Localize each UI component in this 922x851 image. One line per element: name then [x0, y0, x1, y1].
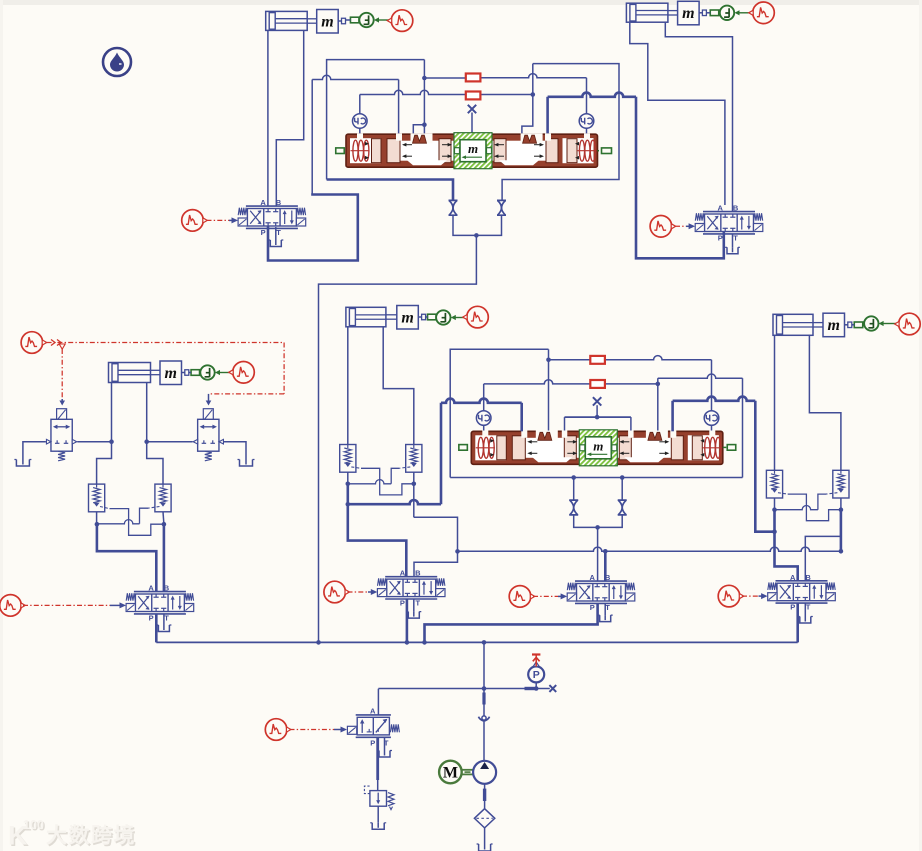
relief valve 1M [340, 445, 356, 473]
wire mid loop top-left [450, 349, 548, 477]
node long line left end [455, 549, 460, 554]
wire relief1R to hub (thick) [773, 510, 776, 532]
tank DCV2 [727, 247, 738, 254]
wire cyl4t cap to DCV2 A [630, 23, 725, 205]
node xgate mid [595, 525, 600, 530]
tank DCV6 [800, 617, 811, 624]
valve block 2 [471, 431, 723, 464]
wire DCV3 T to tank [163, 614, 165, 625]
relief pilot cross L [100, 507, 110, 509]
cylinder 2 [346, 307, 386, 327]
wire DCV2 T to tank [732, 234, 734, 247]
block1 right port square [602, 148, 612, 154]
node orifice1 junction [422, 76, 427, 81]
wire orificeB line [484, 380, 591, 384]
long pressure line (thin) [458, 547, 842, 551]
wire to DCV3 A (thick) [97, 524, 156, 591]
wire DCV3 P to bus (thick) [155, 614, 158, 642]
wire to bottom valve A [377, 689, 379, 715]
pump [473, 761, 496, 784]
mass 3 [160, 361, 182, 385]
svg-text:T: T [416, 598, 421, 607]
node xgate junction [474, 233, 479, 238]
wire VR right to tank [224, 442, 246, 460]
svg-text:m: m [468, 141, 478, 156]
node cyl3 cap [109, 439, 114, 444]
node DCV6 A hub [772, 529, 777, 534]
wire bottom valve P (thick) [376, 737, 379, 780]
svg-text:B: B [733, 204, 739, 213]
pipe segment pump-out (thick) [483, 789, 486, 801]
flow sensor Ch right [579, 114, 594, 129]
wire cyl3 cap down [111, 383, 113, 442]
cylinder 4 top [626, 3, 668, 22]
xgate X1 [449, 200, 458, 215]
flow sensor Ch left [353, 114, 368, 129]
svg-text:B: B [415, 569, 421, 578]
wire chq-left-mid drop [483, 384, 485, 411]
mass 4m [823, 313, 845, 337]
pump bus [156, 641, 797, 643]
green arrow 4m [883, 323, 896, 325]
wire DCV1 P lower (thick) [268, 195, 358, 261]
wire thick feed from block notch-right [671, 401, 674, 432]
svg-text:P: P [590, 603, 595, 612]
signal source DCV2 [650, 216, 676, 238]
svg-text:T: T [733, 233, 738, 242]
wire VL right to node [77, 441, 111, 443]
green link 4t [710, 10, 719, 16]
mass 4t [678, 1, 700, 25]
wire DCV4 T tank [413, 599, 415, 612]
tank VL [16, 460, 29, 467]
node orificeB junction [656, 382, 661, 387]
wire filter to tank [484, 828, 486, 844]
signal source cyl2 [463, 306, 489, 328]
wire relief2R down to long line [840, 510, 843, 552]
svg-text:m: m [828, 317, 840, 334]
wire pump to filter [484, 784, 486, 809]
signal source bottom valve [265, 719, 291, 741]
wire orifice1 line [424, 77, 465, 79]
block2 left port square [459, 445, 468, 451]
tank pump suction [479, 844, 491, 851]
valve VL 2/2 [57, 409, 67, 421]
wire relief2R down [840, 498, 842, 510]
flow sensor Ch mid-left [476, 411, 491, 426]
svg-text:B: B [805, 573, 811, 582]
wire relief1L down [96, 512, 98, 524]
wire relief1R down [774, 498, 776, 510]
force sensor 4m [864, 316, 878, 330]
signal source cyl4m [895, 313, 921, 335]
green link 4m [854, 322, 863, 328]
svg-text:T: T [164, 613, 169, 622]
wire jog to DCV6 B [805, 536, 841, 580]
node DCV5 B feed [603, 549, 608, 554]
svg-text:B: B [276, 198, 282, 207]
mass 1 [317, 10, 339, 34]
node orifice2 junction [531, 92, 536, 97]
wire mid loop right [742, 378, 744, 477]
node bus-riser [482, 640, 487, 645]
xgate mid pair [571, 475, 576, 480]
relief pilot cross R [778, 493, 788, 494]
wire VR left to node [147, 441, 193, 443]
flow sensor Ch mid-right [704, 411, 719, 426]
green arrow 3 [219, 372, 231, 374]
node bus-424 [422, 640, 427, 645]
xplug top-block [468, 105, 476, 113]
svg-text:P: P [400, 598, 405, 607]
water drop icon [103, 48, 131, 76]
wire orifice2 line [360, 90, 466, 94]
shaft [462, 769, 474, 771]
node relief1L [95, 522, 100, 527]
wire left notch drop mid [548, 349, 550, 431]
orifice R2 [466, 92, 481, 100]
DCV4 [377, 569, 445, 608]
orifice RA mid [590, 356, 605, 364]
signal source cyl3 [229, 362, 255, 384]
wire relief1M to hub (thick) [346, 484, 349, 504]
svg-text:M: M [443, 764, 458, 781]
svg-text:A: A [790, 573, 796, 582]
svg-text:大数跨境: 大数跨境 [46, 824, 136, 848]
signal source DCV5 [509, 586, 535, 608]
wire DCV6 T tank [804, 603, 806, 616]
svg-text:P: P [370, 738, 375, 747]
wire right notch drop mid [657, 378, 659, 431]
wire cyl4t rod to DCV2 B [665, 23, 732, 212]
svg-text:P: P [149, 613, 154, 622]
wire xplug1 drop [471, 113, 473, 135]
tank DCV3 [158, 625, 169, 632]
green link 1 [350, 17, 359, 23]
wire block right notch drop [522, 64, 533, 135]
block1 left port square [336, 148, 345, 154]
node relief1R [772, 507, 777, 512]
signal source DCV6 [718, 585, 744, 607]
svg-text:A: A [589, 573, 595, 582]
wire thin loop right [502, 64, 619, 201]
pipe segment sensor line (thick) [525, 687, 535, 690]
relief pilot cross M [351, 467, 361, 468]
wire hub to block-left port (thick) [348, 500, 441, 504]
wire thick P to DCV2 [546, 97, 549, 134]
node long line right end [839, 549, 844, 554]
wire bottom valve T [384, 737, 386, 750]
relief valve 1R [766, 470, 782, 498]
wire block left notch drop [423, 60, 425, 135]
relief valve 2R [833, 470, 849, 498]
svg-text:T: T [276, 228, 281, 237]
signal source DCV1 [182, 210, 208, 232]
wire cyl4m rod to relief2R [809, 335, 841, 471]
wire relief2M down [413, 484, 415, 518]
DCV6 [768, 573, 836, 612]
node cyl3 rod [144, 439, 149, 444]
wire DCV5 T tank [604, 603, 606, 615]
red branch to VL [61, 349, 63, 399]
node relief2L [162, 522, 167, 527]
wire DCV1 T to tank [275, 227, 277, 240]
force sensor 1 [359, 13, 373, 27]
svg-text:A: A [400, 569, 406, 578]
tank DCV1 [270, 240, 281, 247]
svg-text:100: 100 [23, 818, 44, 832]
wire DCV5 P (thick) [425, 603, 598, 642]
svg-text:m: m [401, 309, 413, 326]
node relief1M [346, 482, 351, 487]
signal source DCV3 [0, 595, 25, 617]
wire cyl4m cap to relief1R [774, 335, 776, 471]
signal source DCV4 [324, 581, 350, 603]
block2 right port square [727, 445, 736, 451]
DCV1 [238, 198, 306, 237]
wire cyl1 A line [267, 30, 269, 205]
wire P riser to block port [312, 75, 398, 79]
green arrow 4t [739, 12, 750, 14]
wire DCV6 P to bus (thick) [796, 603, 799, 642]
wire DCV1 P riser [311, 80, 313, 195]
svg-text:m: m [165, 365, 177, 382]
red branch triangle [59, 344, 65, 349]
green arrow 2 [455, 317, 466, 319]
orifice RB mid [590, 380, 605, 388]
relief valve bottom [370, 791, 387, 807]
wire cyl2 rod to relief2M [383, 327, 414, 445]
signal source cyl4t [749, 2, 775, 24]
mass 2 [397, 306, 419, 330]
wire VL left to tank [23, 442, 46, 460]
svg-text:P: P [790, 603, 795, 612]
tank bottom relief [372, 823, 384, 830]
valve VR 2/2 [203, 409, 213, 421]
svg-text:A: A [717, 204, 723, 213]
green arrow 1 [378, 19, 389, 21]
wire relief2M down [413, 472, 415, 484]
watermark [8, 818, 138, 851]
green link 3 [191, 370, 200, 376]
tank DCV4 [408, 612, 419, 619]
wire chq-left drop [359, 95, 361, 114]
force sensor 3 [200, 365, 214, 379]
force sensor 2 [436, 310, 450, 324]
node orificeA junction [546, 358, 551, 363]
wire DCV4 P to bus (thick) [406, 599, 409, 642]
svg-text:m: m [682, 5, 694, 22]
node riser-sensor line [482, 686, 487, 691]
motor M [439, 761, 462, 784]
node bus-318 [316, 640, 321, 645]
cylinder 3 [109, 363, 151, 383]
red corner to VR [283, 343, 285, 394]
filter [474, 809, 494, 828]
red sensor marker [532, 653, 540, 655]
xplug sensor line end [549, 685, 556, 692]
svg-text:A: A [370, 707, 376, 716]
wire hub to DCV6 A (thick) [775, 532, 798, 581]
wire orificeA line [549, 359, 591, 361]
wire node to relief2L [147, 442, 163, 484]
relief valve 2M [406, 445, 422, 473]
cylinder 1 [266, 11, 308, 30]
tank VR [240, 460, 253, 467]
xgate X2 [497, 200, 506, 215]
wire cyl3 rod down [146, 383, 148, 442]
wire thick loop to xgate1 [327, 180, 453, 201]
check valve [479, 717, 490, 722]
tank bottom valve T [379, 751, 390, 758]
bottom pilot valve [356, 714, 391, 716]
sensor line [378, 688, 549, 690]
red chevrons [51, 340, 61, 346]
svg-text:m: m [321, 13, 333, 30]
DCV2 [695, 204, 763, 243]
pipe segment riser (thick) [483, 689, 485, 693]
wire xpair down to pump bus [319, 235, 477, 642]
xplug mid [593, 397, 601, 405]
signal source cyl1 [387, 10, 413, 32]
svg-text:P: P [533, 669, 540, 681]
svg-text:T: T [605, 603, 610, 612]
cylinder 4 mid [773, 314, 813, 335]
svg-text:P: P [718, 233, 723, 242]
node bus-407 [405, 640, 410, 645]
wire hub down to DCV4-A feed (thick) [348, 504, 407, 577]
svg-text:T: T [806, 603, 811, 612]
wire B detour [414, 517, 458, 576]
orifice R1 [466, 74, 481, 82]
green link 2 [428, 314, 437, 320]
relief valve 2L [155, 484, 171, 512]
wire cyl2 cap to relief1M [347, 327, 349, 445]
node sensor tap [534, 686, 539, 691]
wire top loop horizontal [327, 60, 425, 180]
node relief2R [839, 507, 844, 512]
svg-text:P: P [261, 228, 266, 237]
wire to DCV5 B (thick) [604, 551, 607, 581]
pump riser [483, 642, 485, 688]
valve block 1 [346, 134, 598, 167]
wire to DCV5 A [597, 527, 599, 581]
wire relief to tank [377, 806, 379, 823]
wire relief2L down [162, 512, 165, 524]
node hub M [346, 502, 351, 507]
svg-text:m: m [593, 438, 603, 453]
tank DCV5 [600, 615, 611, 622]
wire cyl1 B line [276, 30, 303, 205]
svg-text:A: A [148, 584, 154, 593]
DCV5 [567, 573, 635, 612]
node relief2M [412, 482, 417, 487]
wire mid loop bottom [450, 477, 742, 479]
svg-text:B: B [605, 573, 611, 582]
wire to DCV3 B (thick) [163, 524, 166, 591]
xgate pair outputs [453, 215, 476, 235]
wire node to relief1L [97, 442, 112, 484]
wire relief1M down [347, 472, 349, 484]
pressure sensor P [535, 682, 537, 688]
relief valve 1L [89, 484, 105, 512]
DCV3 [126, 584, 194, 623]
force sensor 4t [720, 6, 734, 20]
node xplug mid [595, 415, 600, 420]
svg-text:A: A [260, 198, 266, 207]
signal source left feedback [21, 332, 47, 354]
svg-text:B: B [164, 584, 170, 593]
